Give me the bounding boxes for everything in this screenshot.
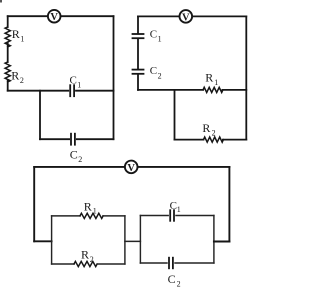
- svg-text:R: R: [12, 27, 20, 41]
- wire: circuit3 connector outer-left to box: [34, 240, 51, 242]
- voltmeter V (circuit3): [125, 161, 138, 174]
- wire: circuit3 connector box to outer-right: [214, 241, 230, 243]
- svg-text:V: V: [182, 12, 190, 23]
- wire: circuit2 middle horizontal right of R1: [222, 89, 246, 91]
- wire: circuit3 top-left segment: [34, 166, 125, 168]
- svg-text:1: 1: [93, 207, 97, 216]
- capacitor C2 (circuit2): [133, 70, 144, 74]
- svg-text:R: R: [202, 121, 210, 135]
- svg-text:2: 2: [20, 76, 24, 85]
- svg-text:C: C: [150, 65, 157, 77]
- label C1 (circuit2): [150, 29, 162, 44]
- resistor R1 (circuit2, horizontal): [203, 87, 223, 92]
- wire: circuit1 left upper: [7, 16, 9, 27]
- wire: circuit2 inner loop left vertical: [174, 90, 176, 140]
- wire: circuit3 right box top right of C1: [176, 215, 214, 217]
- svg-text:R: R: [11, 68, 19, 82]
- svg-text:1: 1: [77, 80, 81, 89]
- svg-text:C: C: [168, 272, 176, 286]
- wire: circuit1 bottom left of C2: [40, 138, 69, 140]
- capacitor C2 (circuit3): [169, 258, 173, 269]
- capacitor C1 (circuit1): [70, 85, 74, 96]
- label R1 (circuit2): [205, 70, 218, 86]
- svg-text:2: 2: [78, 155, 82, 164]
- wire: circuit1 middle horizontal right of C1: [76, 90, 114, 92]
- label C2 (circuit1): [70, 147, 82, 164]
- svg-text:R: R: [84, 199, 92, 213]
- resistor R1 (circuit3, horizontal): [80, 213, 103, 218]
- svg-text:V: V: [127, 163, 135, 174]
- resistor R2 (circuit1, vertical): [5, 62, 10, 82]
- wire: circuit2 left below C2: [137, 75, 139, 90]
- svg-text:C: C: [70, 147, 78, 161]
- svg-text:1: 1: [158, 35, 162, 44]
- label C2 (circuit2): [150, 65, 162, 80]
- svg-text:V: V: [50, 12, 58, 23]
- wire: circuit3 left box bottom right of R2: [97, 263, 125, 265]
- voltmeter V (circuit2): [180, 10, 193, 23]
- wire: circuit1 top-left segment: [8, 15, 48, 17]
- voltmeter V (circuit1): [48, 10, 61, 23]
- wire: circuit2 left above C1: [137, 16, 139, 33]
- wire: circuit3 left box top right of R1: [103, 215, 125, 217]
- wire: circuit3 left box bottom left of R2: [52, 263, 74, 265]
- wire: circuit2 top-right segment: [192, 15, 246, 17]
- svg-text:C: C: [70, 75, 77, 87]
- scan artifact mark top-left: [0, 0, 2, 3]
- svg-text:R: R: [205, 70, 213, 84]
- wire: circuit1 top-right segment: [61, 15, 114, 17]
- label C1 (circuit1): [70, 75, 82, 90]
- wire: circuit2 middle horizontal left of R1: [138, 89, 203, 91]
- svg-text:2: 2: [158, 71, 162, 80]
- wire: circuit2 bottom right of R2: [223, 139, 246, 141]
- wire: circuit3 left box right edge: [124, 216, 126, 264]
- wire: circuit3 right box bottom left of C2: [140, 262, 167, 264]
- resistor R2 (circuit3, horizontal): [74, 261, 97, 266]
- svg-text:2: 2: [177, 280, 181, 289]
- label C1 (circuit3): [170, 200, 181, 214]
- wire: circuit3 right box top left of C1: [140, 215, 168, 217]
- wire: circuit1 bottom right of C2: [77, 138, 114, 140]
- wire: circuit2 left between C1 and C2: [137, 39, 139, 69]
- wire: circuit3 right box left edge: [139, 216, 141, 264]
- capacitor C1 (circuit3): [170, 210, 174, 221]
- resistor R2 (circuit2, horizontal): [204, 137, 224, 142]
- svg-text:1: 1: [20, 34, 24, 43]
- svg-text:R: R: [81, 247, 89, 261]
- wire: circuit3 left box left edge: [51, 216, 53, 264]
- resistor R1 (circuit1, vertical): [5, 27, 10, 47]
- svg-text:1: 1: [177, 205, 181, 214]
- svg-text:1: 1: [214, 78, 218, 87]
- wire: circuit2 right vertical: [245, 16, 247, 139]
- wire: circuit3 right box bottom right of C2: [175, 262, 214, 264]
- wire: circuit1 inner loop left vertical: [39, 91, 41, 140]
- wire: circuit3 left box top left of R1: [52, 215, 80, 217]
- label R1 (circuit3): [84, 199, 97, 215]
- svg-text:2: 2: [212, 129, 216, 138]
- wire: circuit3 right box right edge: [213, 216, 215, 264]
- wire: circuit1 left middle: [7, 43, 9, 62]
- wire: circuit2 bottom left of R2: [175, 139, 204, 141]
- label R1 (circuit1): [12, 27, 25, 43]
- svg-text:C: C: [150, 29, 157, 41]
- wire: circuit2 top-left segment: [138, 15, 179, 17]
- svg-text:2: 2: [90, 255, 94, 264]
- label R2 (circuit1): [11, 68, 24, 85]
- label R2 (circuit2): [202, 121, 215, 137]
- wire: circuit3 connector between boxes: [125, 240, 140, 242]
- label C2 (circuit3): [168, 272, 181, 289]
- wire: circuit1 right vertical: [113, 16, 115, 139]
- wire: circuit3 outer left vertical: [33, 167, 35, 241]
- label R2 (circuit3): [81, 247, 94, 263]
- wire: circuit3 outer right vertical: [228, 167, 230, 242]
- wire: circuit1 left lower: [7, 80, 9, 91]
- capacitor C1 (circuit2): [133, 34, 144, 38]
- wire: circuit3 top-right segment: [138, 166, 230, 168]
- wire: circuit1 middle horizontal left of C1: [8, 90, 69, 92]
- capacitor C2 (circuit1): [71, 134, 75, 145]
